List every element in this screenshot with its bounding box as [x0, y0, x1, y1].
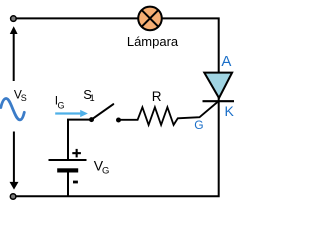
- svg-text:A: A: [221, 53, 231, 70]
- svg-text:G: G: [102, 166, 109, 177]
- svg-text:G: G: [194, 118, 203, 132]
- svg-text:1: 1: [90, 93, 95, 103]
- svg-text:K: K: [225, 103, 235, 119]
- svg-text:R: R: [152, 89, 162, 104]
- svg-text:Lámpara: Lámpara: [127, 34, 179, 49]
- svg-text:G: G: [58, 101, 65, 111]
- svg-text:S: S: [21, 93, 27, 103]
